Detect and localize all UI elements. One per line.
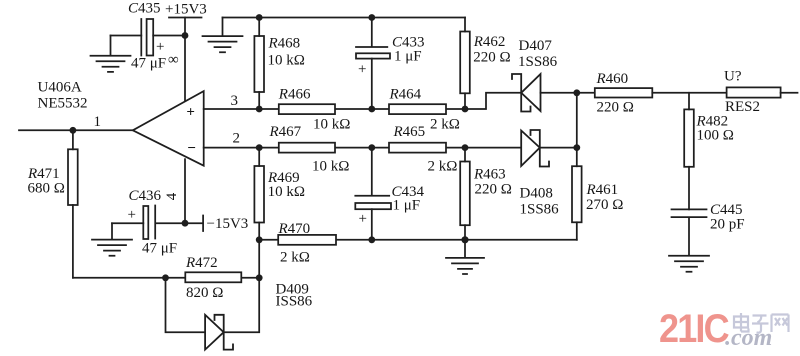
resistor R466 bbox=[279, 104, 335, 114]
plus sign C433 bbox=[358, 62, 366, 78]
resistor R462 bbox=[460, 18, 470, 110]
value R461 bbox=[586, 197, 623, 213]
value D407 1SS86 bbox=[518, 54, 558, 70]
node -15V3 terminal tick bbox=[185, 216, 203, 232]
value R466 10k bbox=[313, 117, 350, 133]
label R466 bbox=[278, 87, 311, 103]
wire R470 line bbox=[259, 239, 577, 241]
svg-text:20 pF: 20 pF bbox=[710, 217, 745, 233]
junction line2/R463 bbox=[462, 144, 469, 151]
label R469 bbox=[267, 170, 300, 186]
resistor R467 bbox=[279, 143, 335, 153]
svg-text:U406A: U406A bbox=[38, 80, 82, 96]
value C434 bbox=[393, 197, 421, 213]
svg-text:−: − bbox=[187, 140, 196, 156]
resistor R471 bbox=[68, 130, 78, 277]
junction D408/bus bbox=[573, 144, 580, 151]
svg-text:ISS86: ISS86 bbox=[276, 294, 313, 310]
ground G4 (below R470 line) bbox=[446, 240, 484, 274]
svg-text:R463: R463 bbox=[473, 166, 506, 182]
label C434 bbox=[392, 184, 425, 200]
resistor R472 bbox=[185, 272, 241, 282]
logo .com script bbox=[725, 325, 772, 351]
ground G3 (left of C436) bbox=[92, 223, 132, 256]
value R469 bbox=[268, 184, 305, 200]
wire output line 2 bbox=[204, 147, 522, 149]
wire D408 to bus bbox=[540, 147, 577, 149]
label D409 bbox=[276, 282, 309, 298]
value D408 1SS86 bbox=[520, 202, 560, 218]
junction R470line/C434 bbox=[368, 236, 375, 243]
svg-text:2 kΩ: 2 kΩ bbox=[428, 159, 458, 175]
junction rail/R468 bbox=[256, 14, 263, 21]
svg-text:4: 4 bbox=[164, 192, 180, 200]
svg-text:1SS86: 1SS86 bbox=[520, 202, 560, 218]
svg-text:47 μF: 47 μF bbox=[131, 56, 166, 72]
junction line2/R469 bbox=[256, 144, 263, 151]
svg-text:220 Ω: 220 Ω bbox=[473, 49, 510, 65]
capacitor C445 bbox=[672, 209, 707, 255]
svg-text:21IC: 21IC bbox=[659, 307, 729, 351]
plus sign C434 bbox=[359, 211, 367, 227]
capacitor C435 bbox=[111, 19, 186, 56]
capacitor C433 bbox=[356, 18, 390, 110]
svg-text:RES2: RES2 bbox=[725, 99, 760, 115]
svg-text:R472: R472 bbox=[185, 255, 218, 271]
svg-text:R460: R460 bbox=[596, 71, 629, 87]
svg-text:10 kΩ: 10 kΩ bbox=[312, 159, 349, 175]
wire output line 3 bbox=[204, 93, 522, 109]
value R460 bbox=[597, 100, 634, 116]
svg-text:220 Ω: 220 Ω bbox=[475, 182, 512, 198]
wire D409 loop bbox=[166, 278, 260, 332]
resistor R463 bbox=[460, 148, 470, 240]
svg-text:R465: R465 bbox=[393, 124, 426, 140]
svg-text:R464: R464 bbox=[389, 87, 422, 103]
label R468 bbox=[268, 36, 301, 52]
svg-text:10 kΩ: 10 kΩ bbox=[268, 184, 305, 200]
label R460 bbox=[596, 71, 629, 87]
svg-text:1: 1 bbox=[94, 114, 102, 130]
svg-text:220 Ω: 220 Ω bbox=[597, 100, 634, 116]
value C435 47uF bbox=[131, 56, 166, 72]
value R463 bbox=[475, 182, 512, 198]
junction R470line/ground bbox=[461, 236, 468, 243]
svg-text:10 kΩ: 10 kΩ bbox=[313, 117, 350, 133]
resistor R461 bbox=[572, 166, 582, 240]
label U406A / NE5532 op-amp bbox=[38, 80, 88, 112]
junction R472 right bbox=[256, 274, 263, 281]
logo 21IC text bbox=[659, 307, 729, 351]
label R464 bbox=[389, 87, 422, 103]
capacitor C434 bbox=[355, 148, 391, 240]
label C435 bbox=[128, 1, 161, 17]
junction C435/+15V bbox=[182, 32, 189, 39]
node label -15V3 bbox=[207, 216, 249, 232]
resistor R465 bbox=[389, 143, 446, 153]
label D407 bbox=[519, 38, 553, 54]
svg-text:820 Ω: 820 Ω bbox=[186, 285, 223, 301]
svg-text:680 Ω: 680 Ω bbox=[28, 181, 65, 197]
svg-text:C436: C436 bbox=[129, 188, 162, 204]
wire top ground rail bbox=[223, 17, 466, 19]
svg-text:270 Ω: 270 Ω bbox=[586, 197, 623, 213]
value R482 bbox=[697, 128, 734, 144]
value C445 bbox=[710, 217, 745, 233]
svg-text:+: + bbox=[186, 104, 195, 120]
junction line2/C434 bbox=[368, 144, 375, 151]
svg-text:1 μF: 1 μF bbox=[394, 49, 422, 65]
svg-text:∞: ∞ bbox=[168, 52, 179, 68]
resistor R468 bbox=[254, 18, 264, 110]
junction pin1/R471 bbox=[70, 127, 77, 134]
diode D408 bbox=[521, 130, 549, 167]
resistor R482 bbox=[684, 93, 694, 210]
label R467 bbox=[269, 124, 302, 140]
junction rail/C433 bbox=[368, 14, 375, 21]
pin number 2 bbox=[233, 131, 241, 147]
ground G2 (top middle) bbox=[203, 18, 243, 53]
pin number 1 bbox=[94, 114, 102, 130]
junction D407/R460/bus bbox=[573, 89, 580, 96]
pin number 3 bbox=[231, 93, 239, 109]
svg-text:10 kΩ: 10 kΩ bbox=[268, 53, 305, 69]
label R482 bbox=[696, 114, 729, 130]
resistor U? RES2 bbox=[727, 87, 798, 97]
diode D409 bbox=[205, 315, 233, 350]
capacitor C436 bbox=[112, 206, 185, 240]
wire R470line to R472line (column E) bbox=[258, 240, 260, 278]
svg-text:2: 2 bbox=[233, 131, 241, 147]
svg-text:NE5532: NE5532 bbox=[38, 96, 88, 112]
junction line3/C433 bbox=[368, 106, 375, 113]
wire vertical bus to R461 bbox=[576, 93, 578, 166]
ground G5 (below C445) bbox=[669, 256, 709, 272]
value D409 ISS86 bbox=[276, 294, 313, 310]
svg-text:+15V3: +15V3 bbox=[165, 2, 207, 18]
svg-text:+: + bbox=[128, 207, 136, 223]
svg-text:47 μF: 47 μF bbox=[142, 240, 177, 256]
value R468 bbox=[268, 53, 305, 69]
value R464 2k bbox=[430, 117, 460, 133]
value R465 2k bbox=[428, 159, 458, 175]
junction R470line/R469 bbox=[256, 236, 263, 243]
resistor R469 bbox=[254, 148, 264, 240]
svg-text:3: 3 bbox=[231, 93, 239, 109]
svg-text:R470: R470 bbox=[278, 221, 311, 237]
label R462 bbox=[473, 34, 506, 50]
plus sign C436 bbox=[128, 207, 136, 223]
wire input pin 1 bbox=[19, 129, 133, 131]
ground G1 (left of C435) bbox=[91, 36, 131, 72]
wire R472 line bbox=[73, 277, 259, 279]
svg-text:R461: R461 bbox=[586, 182, 619, 198]
svg-text:R468: R468 bbox=[268, 36, 301, 52]
plus sign C435 bbox=[156, 39, 164, 55]
junction pin4/C436 bbox=[182, 220, 189, 227]
label R470 bbox=[278, 221, 311, 237]
value R472 bbox=[186, 285, 223, 301]
node label +15V3 bbox=[165, 2, 207, 18]
svg-text:2 kΩ: 2 kΩ bbox=[280, 250, 310, 266]
label D408 bbox=[520, 186, 553, 202]
value R462 bbox=[473, 49, 510, 65]
label R471 bbox=[27, 166, 60, 182]
svg-text:+: + bbox=[358, 62, 366, 78]
junction line3/R468 bbox=[256, 106, 263, 113]
wire +15V supply vertical to op-amp bbox=[184, 18, 186, 102]
svg-text:+: + bbox=[156, 39, 164, 55]
svg-text:D407: D407 bbox=[519, 38, 553, 54]
label R461 bbox=[586, 182, 619, 198]
svg-text:1 μF: 1 μF bbox=[393, 197, 421, 213]
op-amp plus input sign bbox=[186, 104, 195, 120]
svg-text:C445: C445 bbox=[710, 202, 743, 218]
value C433 bbox=[394, 49, 422, 65]
op-amp U406A triangle bbox=[133, 91, 204, 166]
diode D407 bbox=[512, 74, 541, 112]
svg-text:−15V3: −15V3 bbox=[207, 216, 249, 232]
wire op-amp pin 4 bbox=[184, 159, 186, 223]
value R470 bbox=[280, 250, 310, 266]
resistor R470 bbox=[278, 235, 336, 245]
svg-text:+: + bbox=[359, 211, 367, 227]
svg-text:D408: D408 bbox=[520, 186, 553, 202]
infinity mark bbox=[168, 52, 179, 68]
label R472 bbox=[185, 255, 218, 271]
label R463 bbox=[473, 166, 506, 182]
value C436 47uF bbox=[142, 240, 177, 256]
label C436 bbox=[129, 188, 162, 204]
op-amp minus input sign bbox=[187, 140, 196, 156]
resistor R464 bbox=[389, 104, 446, 114]
svg-text:R467: R467 bbox=[269, 124, 302, 140]
svg-text:1SS86: 1SS86 bbox=[518, 54, 558, 70]
svg-text:R466: R466 bbox=[278, 87, 311, 103]
value RES2 bbox=[725, 99, 760, 115]
svg-text:C435: C435 bbox=[128, 1, 161, 17]
value R471 bbox=[28, 181, 65, 197]
svg-text:U?: U? bbox=[724, 69, 742, 85]
node label U? bbox=[724, 69, 742, 85]
logo CJK dianziwang glyphs bbox=[734, 313, 789, 333]
svg-text:R462: R462 bbox=[473, 34, 506, 50]
svg-text:100 Ω: 100 Ω bbox=[697, 128, 734, 144]
label R465 bbox=[393, 124, 426, 140]
junction R472 left bbox=[162, 274, 169, 281]
label C433 bbox=[392, 35, 425, 51]
node +15V3 terminal tick bbox=[169, 17, 202, 19]
resistor R460 bbox=[595, 88, 727, 97]
pin number 4 (rotated) bbox=[164, 192, 180, 200]
wire D407 to R460 bbox=[541, 92, 595, 94]
label C445 bbox=[710, 202, 743, 218]
value R467 10k bbox=[312, 159, 349, 175]
junction line3/R462 bbox=[462, 106, 469, 113]
svg-text:2 kΩ: 2 kΩ bbox=[430, 117, 460, 133]
